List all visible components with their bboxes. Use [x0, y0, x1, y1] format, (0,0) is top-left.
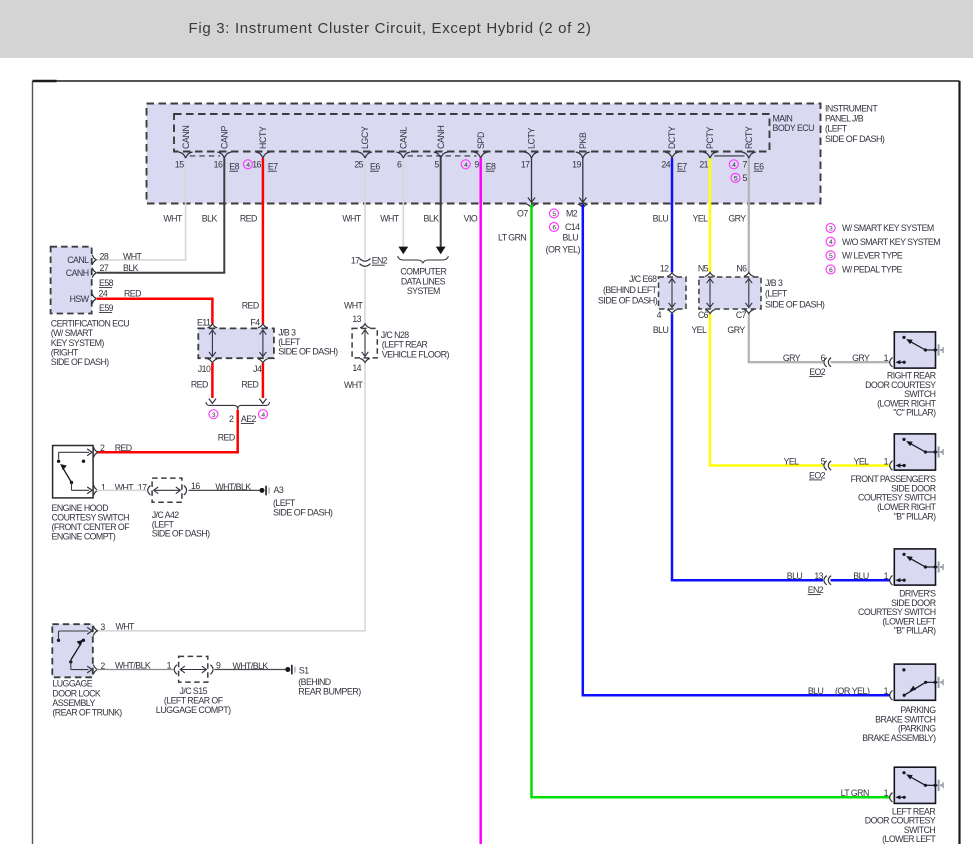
svg-text:CANP: CANP: [220, 125, 230, 149]
wire BLU PKB to parking brake switch: [583, 205, 890, 696]
svg-text:SIDE OF DASH): SIDE OF DASH): [598, 296, 658, 306]
inline connector EN2 on LGCY wire: [360, 258, 371, 261]
svg-text:GRY: GRY: [727, 325, 745, 335]
wire RED HCTY down to J/B3 F4: [262, 158, 265, 324]
junction connector J/C S15: [174, 665, 177, 675]
ground splice S1: [285, 667, 290, 672]
svg-text:COURTESY SWITCH: COURTESY SWITCH: [52, 512, 130, 522]
wire LT GRN LCTY to left rear door switch: [532, 205, 891, 798]
svg-text:12: 12: [660, 263, 669, 273]
svg-text:SIDE OF DASH): SIDE OF DASH): [51, 357, 109, 367]
svg-text:6: 6: [821, 353, 826, 363]
svg-text:HCTY: HCTY: [258, 126, 268, 149]
svg-text:SIDE OF DASH): SIDE OF DASH): [273, 507, 333, 517]
svg-text:1: 1: [884, 788, 889, 798]
svg-text:DOOR LOCK: DOOR LOCK: [52, 688, 101, 698]
svg-text:W/O SMART KEY SYSTEM: W/O SMART KEY SYSTEM: [842, 237, 940, 247]
wire BLU DCTY vertical: [671, 158, 674, 272]
svg-text:6: 6: [397, 159, 402, 169]
svg-text:28: 28: [100, 251, 109, 261]
svg-text:(RIGHT: (RIGHT: [51, 347, 79, 357]
svg-text:C6: C6: [698, 310, 709, 320]
svg-text:(W/ SMART: (W/ SMART: [51, 328, 94, 338]
svg-text:N6: N6: [736, 263, 747, 273]
svg-text:SIDE OF DASH): SIDE OF DASH): [278, 347, 338, 357]
svg-text:J/C N28: J/C N28: [381, 330, 410, 340]
svg-text:N5: N5: [698, 263, 709, 273]
svg-text:RED: RED: [218, 433, 235, 443]
wire VIO SPD down to page bottom: [479, 158, 482, 844]
svg-text:BLU: BLU: [853, 571, 869, 581]
svg-text:RCTY: RCTY: [744, 126, 754, 149]
svg-text:LT GRN: LT GRN: [498, 233, 526, 243]
svg-text:M2: M2: [566, 209, 578, 219]
svg-text:EN2: EN2: [808, 585, 824, 595]
svg-text:BLU: BLU: [563, 233, 579, 243]
svg-text:RED: RED: [124, 288, 141, 298]
PKB option labels M2 C14: [550, 209, 559, 218]
svg-text:19: 19: [572, 159, 581, 169]
wire WHT LGCY vertical: [364, 158, 366, 259]
svg-text:GRY: GRY: [783, 353, 801, 363]
svg-text:KEY SYSTEM): KEY SYSTEM): [51, 338, 105, 348]
wire WHT LGCY horizontal to luggage switch: [97, 630, 366, 632]
svg-text:4: 4: [657, 310, 662, 320]
svg-text:DATA LINES: DATA LINES: [401, 276, 446, 286]
svg-text:J4: J4: [253, 364, 262, 374]
svg-text:DCTY: DCTY: [667, 126, 677, 149]
svg-text:RED: RED: [241, 380, 258, 390]
svg-text:1: 1: [884, 456, 889, 466]
svg-text:17: 17: [521, 159, 530, 169]
svg-text:"C" PILLAR): "C" PILLAR): [893, 408, 936, 418]
svg-text:5: 5: [434, 159, 439, 169]
svg-text:E58: E58: [99, 278, 114, 288]
svg-text:WHT: WHT: [123, 251, 143, 261]
svg-text:PKB: PKB: [578, 132, 588, 149]
RCTY second variant pin label 5 w/lever: [731, 173, 740, 182]
svg-text:REAR BUMPER): REAR BUMPER): [298, 687, 361, 697]
svg-text:13: 13: [814, 571, 823, 581]
svg-text:2: 2: [100, 443, 105, 453]
junction connector J/C A42: [148, 486, 151, 496]
svg-text:3: 3: [100, 622, 105, 632]
wire BLK CANP from certification ECU: [223, 158, 225, 273]
svg-text:YEL: YEL: [693, 213, 709, 223]
svg-text:17: 17: [351, 255, 360, 265]
svg-text:W/ LEVER TYPE: W/ LEVER TYPE: [842, 251, 903, 261]
svg-text:SPD: SPD: [476, 132, 486, 149]
svg-text:C14: C14: [565, 222, 580, 232]
svg-text:SYSTEM: SYSTEM: [407, 286, 440, 296]
svg-text:(LEFT: (LEFT: [273, 498, 296, 508]
svg-text:CERTIFICATION ECU: CERTIFICATION ECU: [51, 319, 129, 329]
svg-text:(FRONT CENTER OF: (FRONT CENTER OF: [52, 522, 131, 532]
svg-text:J/C S15: J/C S15: [179, 686, 207, 696]
svg-text:AE2: AE2: [241, 414, 257, 424]
LCTY arrow stub inside ECU: [531, 158, 533, 201]
svg-text:WHT: WHT: [342, 213, 362, 223]
svg-text:(LEFT: (LEFT: [278, 337, 301, 347]
connector group line pins 21-7: [714, 155, 744, 157]
svg-text:15: 15: [175, 159, 184, 169]
svg-text:(OR YEL): (OR YEL): [835, 686, 870, 696]
svg-text:E8: E8: [229, 162, 239, 172]
svg-text:LUGGAGE COMPT): LUGGAGE COMPT): [156, 705, 231, 715]
AE2 bus bar: [206, 402, 270, 409]
svg-text:1: 1: [884, 571, 889, 581]
svg-text:EO2: EO2: [809, 367, 826, 377]
svg-text:CANL: CANL: [399, 126, 409, 149]
wire BLK CANH to computer data lines: [440, 158, 442, 247]
svg-text:BLU: BLU: [653, 213, 669, 223]
svg-text:BLK: BLK: [202, 213, 218, 223]
svg-text:WHT: WHT: [116, 622, 136, 632]
svg-text:ASSEMBLY: ASSEMBLY: [52, 698, 95, 708]
wire YEL PCTY to front passenger door switch: [709, 158, 712, 272]
svg-text:BLU: BLU: [653, 325, 669, 335]
svg-text:24: 24: [99, 288, 108, 298]
svg-text:16: 16: [252, 159, 261, 169]
svg-text:BLU: BLU: [787, 571, 803, 581]
svg-text:"B" PILLAR): "B" PILLAR): [894, 626, 936, 636]
svg-text:LCTY: LCTY: [527, 127, 537, 149]
svg-text:9: 9: [216, 660, 221, 670]
svg-text:EO2: EO2: [809, 470, 826, 480]
wire BLU DCTY horizontal to driver door switch (gap at EN2 connector): [671, 579, 674, 582]
svg-text:7: 7: [742, 159, 747, 169]
connector group line pins 15-16: [190, 155, 220, 157]
svg-text:(BEHIND LEFT: (BEHIND LEFT: [603, 285, 658, 295]
svg-text:16: 16: [214, 159, 223, 169]
wire WHT/BLK to ground A3: [189, 489, 260, 491]
right rear door courtesy switch: [894, 332, 935, 368]
svg-text:LT GRN: LT GRN: [841, 788, 869, 798]
svg-text:RED: RED: [240, 213, 257, 223]
wire GRY RCTY to right rear door switch: [748, 158, 750, 272]
svg-text:WHT: WHT: [163, 213, 183, 223]
svg-text:A3: A3: [274, 485, 284, 495]
diagram frame border: [33, 80, 960, 82]
svg-text:5: 5: [821, 456, 826, 466]
wire RED from AE2 to engine hood switch: [236, 410, 239, 454]
svg-text:GRY: GRY: [728, 213, 746, 223]
svg-text:2: 2: [229, 414, 234, 424]
svg-text:EN2: EN2: [372, 256, 388, 266]
svg-text:(OR YEL): (OR YEL): [546, 244, 581, 254]
svg-text:J/C E68: J/C E68: [629, 274, 657, 284]
engine hood courtesy switch: [53, 446, 94, 498]
svg-text:RED: RED: [115, 443, 132, 453]
junction connector J/C N28: [352, 328, 377, 358]
svg-text:E59: E59: [99, 303, 114, 313]
svg-text:13: 13: [352, 314, 361, 324]
svg-text:HSW: HSW: [70, 294, 90, 304]
svg-text:16: 16: [191, 481, 200, 491]
svg-text:W/ PEDAL TYPE: W/ PEDAL TYPE: [842, 265, 903, 275]
svg-text:SIDE OF DASH): SIDE OF DASH): [152, 529, 210, 539]
svg-text:CANH: CANH: [436, 125, 446, 149]
svg-text:BODY ECU: BODY ECU: [773, 123, 815, 133]
wire WHT/BLK luggage to J/C S15: [97, 669, 174, 671]
svg-text:C7: C7: [736, 310, 747, 320]
svg-text:WHT: WHT: [344, 300, 364, 310]
svg-text:E7: E7: [268, 162, 278, 172]
wire WHT CANN from certification ECU: [185, 158, 187, 260]
wire RED HSW to J/B3 E11: [97, 297, 214, 300]
luggage door lock assembly: [52, 624, 93, 677]
svg-text:E7: E7: [677, 162, 687, 172]
svg-text:ENGINE COMPT): ENGINE COMPT): [52, 531, 116, 541]
svg-text:(LEFT REAR OF: (LEFT REAR OF: [164, 696, 224, 706]
svg-text:E11: E11: [197, 317, 211, 327]
svg-text:(REAR OF TRUNK): (REAR OF TRUNK): [52, 708, 122, 718]
svg-text:(BEHIND: (BEHIND: [298, 677, 331, 687]
wire WHT CANL to computer data lines: [402, 158, 404, 247]
svg-text:PCTY: PCTY: [705, 126, 715, 149]
svg-text:MAIN: MAIN: [773, 114, 793, 124]
svg-text:LGCY: LGCY: [360, 126, 370, 149]
svg-text:F4: F4: [250, 317, 260, 327]
svg-text:1: 1: [884, 353, 889, 363]
svg-text:O7: O7: [517, 208, 528, 218]
svg-text:9: 9: [474, 159, 479, 169]
wire WHT/BLK to ground S1: [215, 669, 286, 671]
title bar: [0, 0, 973, 58]
svg-text:YEL: YEL: [691, 325, 707, 335]
certification ECU pin bumps: [92, 255, 96, 265]
svg-text:S1: S1: [299, 665, 309, 675]
svg-text:ENGINE HOOD: ENGINE HOOD: [52, 503, 109, 513]
svg-text:14: 14: [352, 363, 361, 373]
wire WHT engine hood to J/C A42: [97, 489, 147, 491]
svg-text:VIO: VIO: [464, 213, 478, 223]
svg-text:CANN: CANN: [181, 125, 191, 149]
svg-text:J10: J10: [198, 364, 211, 374]
svg-text:W/ SMART KEY SYSTEM: W/ SMART KEY SYSTEM: [842, 223, 934, 233]
svg-text:RED: RED: [242, 301, 259, 311]
svg-text:BLK: BLK: [424, 213, 440, 223]
svg-text:SIDE OF DASH): SIDE OF DASH): [765, 299, 825, 309]
svg-text:WHT: WHT: [344, 380, 364, 390]
main body ECU outer block (instrument panel J/B): [147, 104, 821, 204]
svg-text:SIDE OF DASH): SIDE OF DASH): [825, 134, 885, 144]
svg-text:CANH: CANH: [66, 268, 89, 278]
arrowheads into computer data lines system: [398, 247, 408, 255]
svg-text:(LEFT: (LEFT: [825, 124, 848, 134]
svg-text:RED: RED: [191, 380, 208, 390]
certification ECU box: [51, 247, 92, 314]
svg-text:(LOWER LEFT: (LOWER LEFT: [882, 834, 936, 844]
svg-text:J/B 3: J/B 3: [765, 278, 783, 288]
svg-text:BRAKE ASSEMBLY): BRAKE ASSEMBLY): [862, 733, 936, 743]
svg-text:INSTRUMENT: INSTRUMENT: [825, 104, 878, 114]
svg-text:GRY: GRY: [852, 353, 870, 363]
connector group line pins 6-5-9: [408, 155, 477, 157]
svg-text:1: 1: [884, 686, 889, 696]
svg-text:(LEFT: (LEFT: [765, 289, 788, 299]
front passenger side door courtesy switch: [894, 434, 935, 470]
svg-text:COMPUTER: COMPUTER: [400, 267, 446, 277]
left rear door courtesy switch: [894, 767, 935, 803]
svg-text:BLU: BLU: [808, 686, 824, 696]
driver side door courtesy switch: [894, 549, 935, 585]
svg-text:YEL: YEL: [854, 456, 870, 466]
svg-text:5: 5: [742, 173, 747, 183]
main body ECU inner dashed box: [174, 114, 770, 152]
svg-text:24: 24: [661, 159, 670, 169]
svg-text:"B" PILLAR): "B" PILLAR): [894, 511, 936, 521]
svg-text:LUGGAGE: LUGGAGE: [52, 679, 92, 689]
legend w/ smart key system: [826, 224, 835, 233]
svg-text:PANEL J/B: PANEL J/B: [825, 114, 864, 124]
svg-text:BLK: BLK: [123, 263, 139, 273]
svg-text:E6: E6: [370, 162, 380, 172]
svg-text:YEL: YEL: [784, 456, 800, 466]
svg-text:27: 27: [100, 263, 109, 273]
ground splice A3: [260, 488, 265, 493]
svg-text:Fig 3: Instrument Cluster Circ: Fig 3: Instrument Cluster Circuit, Excep…: [189, 20, 592, 37]
svg-text:E8: E8: [486, 162, 496, 172]
svg-text:21: 21: [699, 159, 708, 169]
PKB arrow stub inside ECU: [582, 158, 584, 201]
svg-text:CANL: CANL: [67, 255, 89, 265]
svg-text:J/B 3: J/B 3: [278, 327, 296, 337]
svg-text:VEHICLE FLOOR): VEHICLE FLOOR): [382, 349, 450, 359]
parking brake switch: [894, 664, 935, 700]
svg-text:WHT: WHT: [380, 213, 400, 223]
svg-text:(LEFT REAR: (LEFT REAR: [382, 340, 428, 350]
computer data lines brace: [398, 256, 449, 263]
svg-text:1: 1: [167, 660, 172, 670]
svg-text:25: 25: [354, 159, 363, 169]
junction block J/B 3 left: [198, 328, 274, 358]
svg-text:E6: E6: [754, 162, 764, 172]
